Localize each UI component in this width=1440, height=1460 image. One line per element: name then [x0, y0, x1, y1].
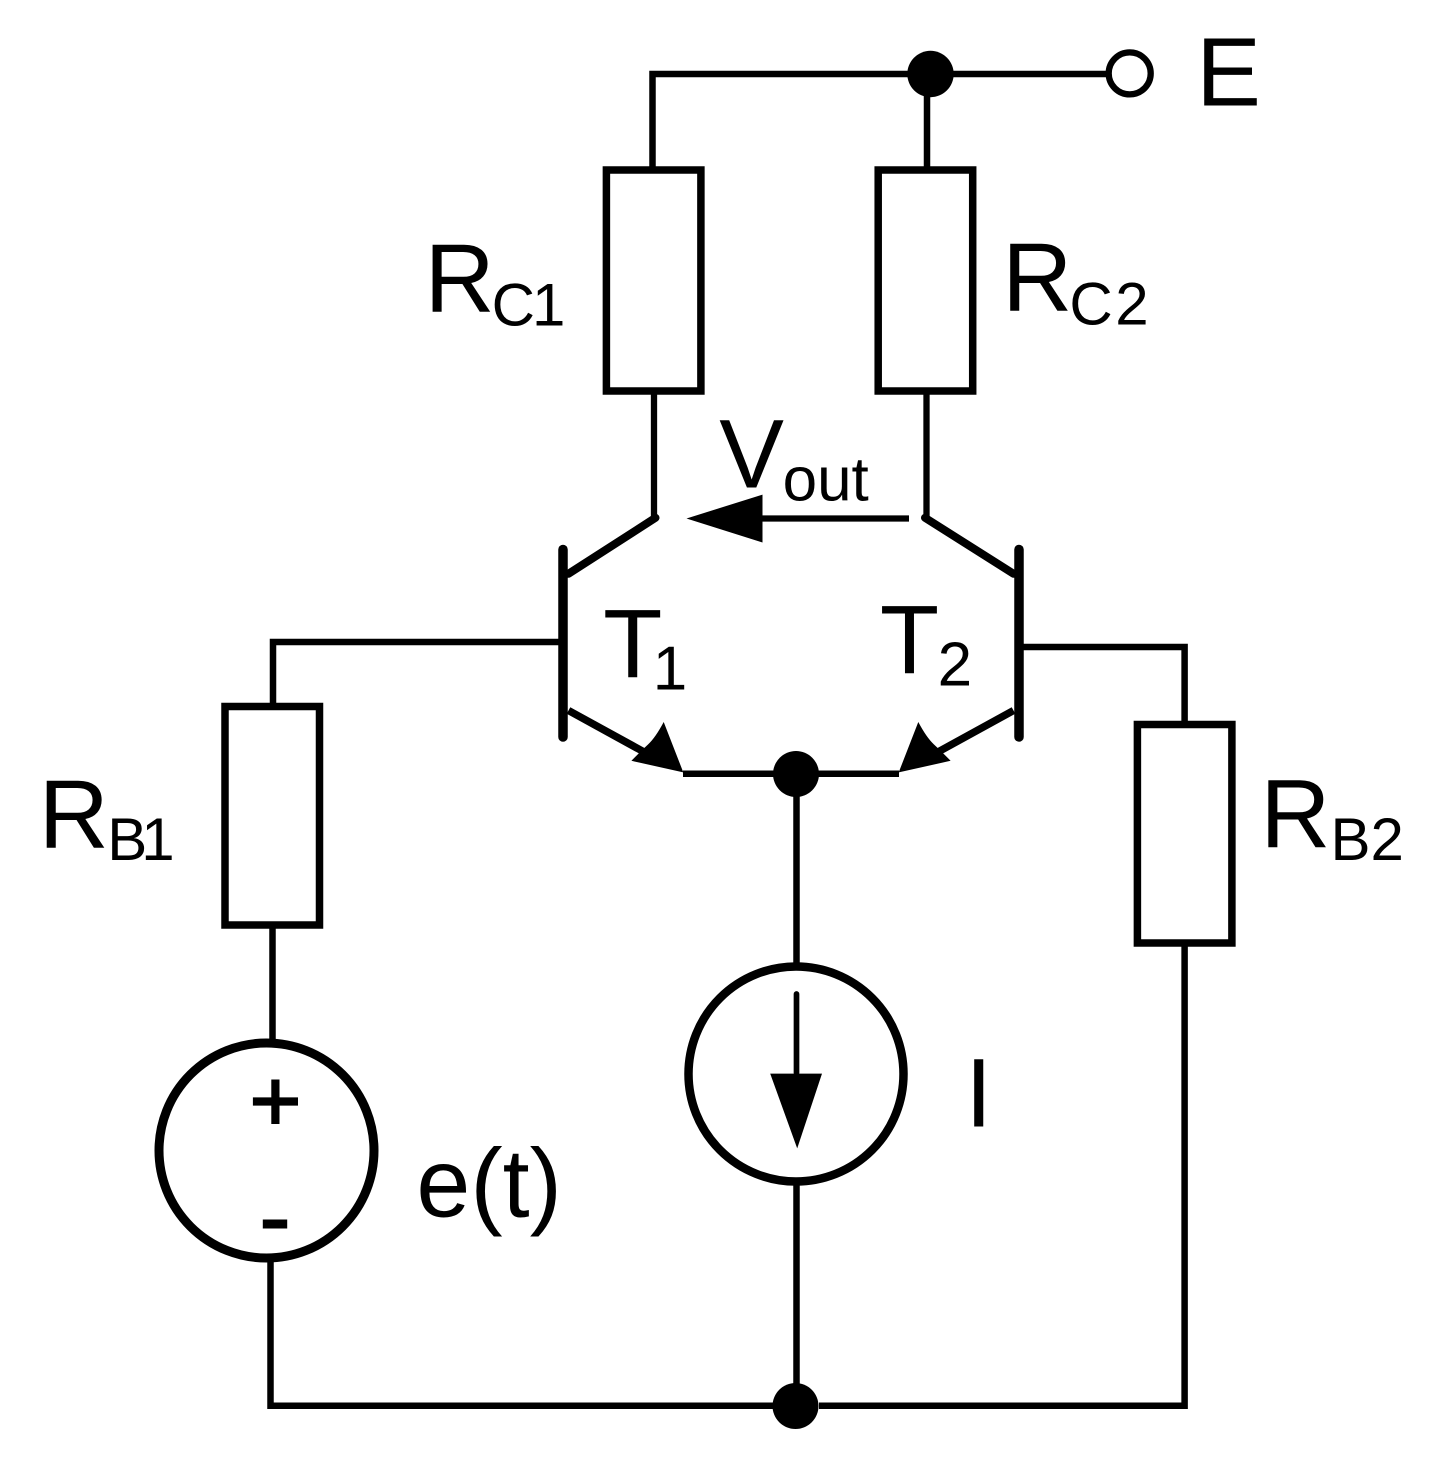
resistor RB1	[225, 707, 320, 926]
svg-text:e(t): e(t)	[416, 1129, 562, 1238]
svg-text:E: E	[1196, 18, 1261, 127]
svg-text:RB2: RB2	[1260, 760, 1403, 874]
resistor RB2	[1137, 725, 1232, 944]
svg-text:RC1: RC1	[425, 224, 566, 339]
minus sign inside e(t)	[263, 1220, 287, 1229]
svg-text:T2: T2	[880, 585, 972, 700]
terminal E open circle	[1109, 52, 1151, 94]
arrow Vout pointing left	[763, 515, 910, 521]
wire RB2 bottom to bottom rail	[819, 943, 1185, 1406]
transistor T1 emitter	[569, 711, 656, 759]
wire T1 emitter to common node	[683, 770, 796, 777]
transistor T2 emitter	[927, 711, 1014, 759]
svg-text:T1: T1	[603, 589, 687, 704]
wire top rail from RC1 corner to E terminal	[653, 74, 1107, 171]
svg-text:Vout: Vout	[719, 400, 869, 515]
transistor T1 base bar	[558, 550, 568, 738]
wire T2 emitter to common node	[796, 770, 899, 777]
svg-text:RC2: RC2	[1002, 223, 1148, 338]
node bottom junction dot	[773, 1383, 819, 1429]
node top junction dot	[907, 51, 953, 97]
wire e(t) bottom to bottom rail	[271, 1259, 774, 1406]
wire current source bottom to bottom node	[793, 1181, 800, 1406]
transistor T2 base bar	[1014, 550, 1024, 738]
svg-text:RB1: RB1	[39, 760, 175, 873]
current source I circle	[689, 967, 904, 1182]
arrow inside current source	[794, 994, 800, 1073]
node emitter junction dot	[773, 751, 819, 797]
wire T2 base to RB2	[1019, 647, 1185, 724]
wire RB1 bottom to e(t) source	[269, 925, 276, 1042]
voltage source e(t) circle	[159, 1043, 374, 1258]
resistor RC2	[878, 170, 973, 391]
plus sign inside e(t)	[253, 1080, 298, 1125]
wire T1 base to RB1	[273, 642, 563, 706]
wire emitter node to current source	[793, 774, 800, 967]
wire RC2 bottom to T2 collector	[923, 391, 929, 518]
svg-text:I: I	[965, 1039, 992, 1148]
wire from top node down to RC2	[924, 74, 931, 172]
wire RC1 bottom to T1 collector	[651, 391, 657, 518]
resistor RC1	[606, 170, 701, 391]
